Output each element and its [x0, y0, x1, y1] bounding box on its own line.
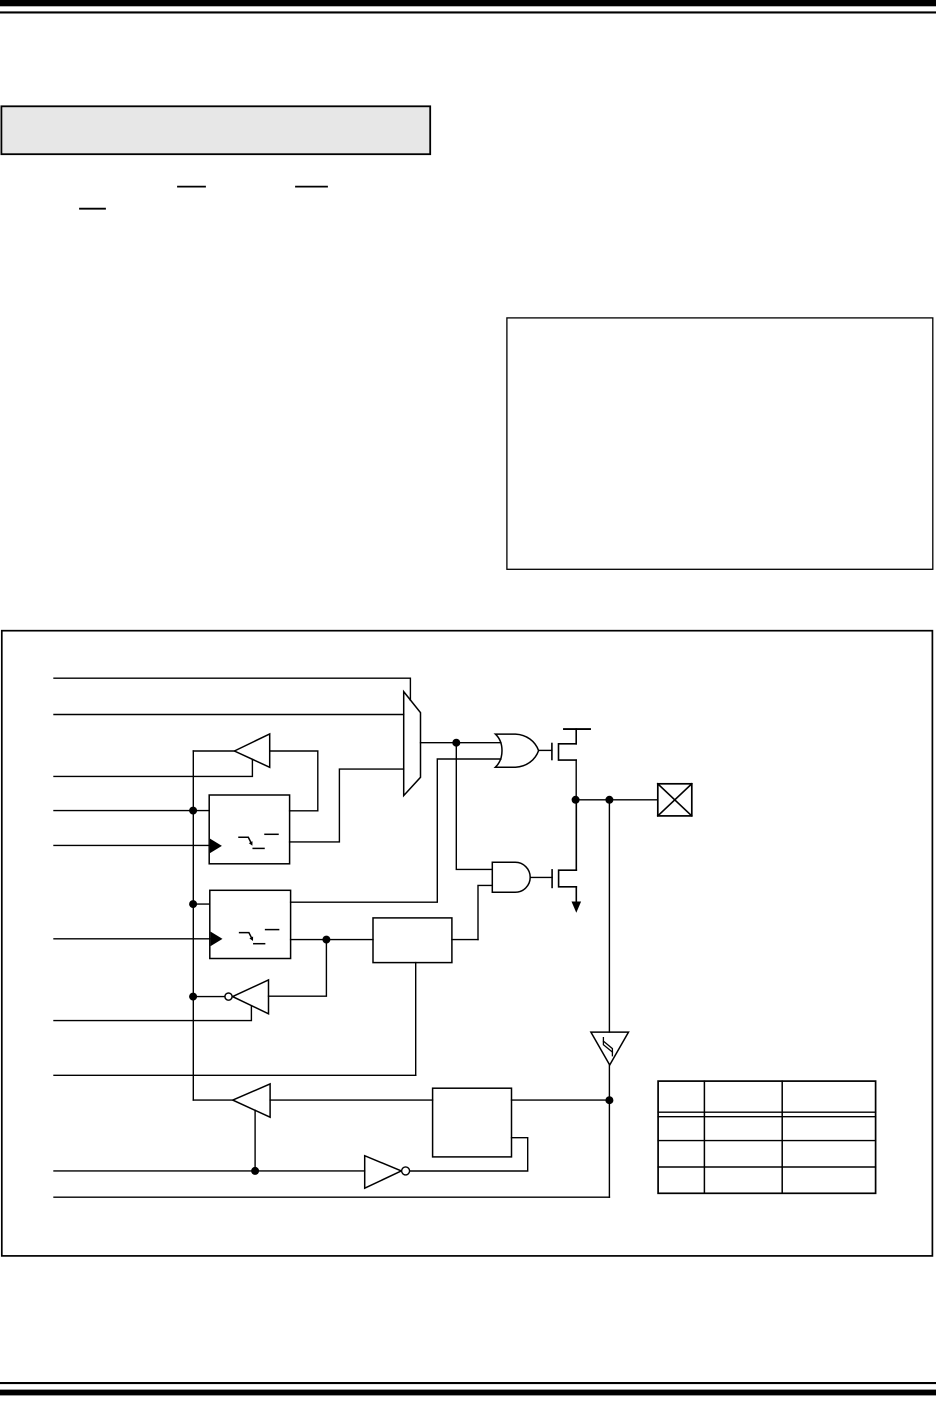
- symbol: D1 falling-edge mark: [239, 834, 278, 848]
- header rule thick: [0, 0, 936, 6]
- section title box (grey): [1, 106, 430, 154]
- block B2: [433, 1088, 512, 1157]
- power rail VDD bar: [564, 728, 590, 730]
- wire: mux output down to AND gate input: [456, 743, 492, 870]
- wire: D1 Q output: [290, 810, 318, 812]
- wire: U3 input from block B2: [270, 1099, 433, 1101]
- wire: data bus input (top): [54, 678, 410, 700]
- pin-name overbar A: [178, 186, 205, 188]
- Schmitt trigger U5 (points down): [591, 1032, 629, 1065]
- inverter U2 (points left, bubble): [233, 980, 269, 1014]
- wire: D2 Q down to inverter U2 input: [269, 940, 327, 997]
- wire: WR PORT clock into latch D1: [54, 844, 209, 846]
- node: junction at Q1/Q2 drains: [572, 796, 580, 804]
- wire: buffer U1 input from latch D1 Q: [270, 751, 318, 811]
- header rule thin: [0, 11, 936, 13]
- ground VSS arrow: [572, 902, 582, 913]
- or-gate G1: [495, 734, 538, 767]
- wire: mux output: [421, 742, 501, 744]
- wire: AND gate output to Q2 gate: [530, 876, 552, 878]
- wire: left vertical bus: [192, 751, 194, 1100]
- wire: Q1 drain to pad node: [575, 760, 577, 800]
- table (bottom right): [658, 1081, 876, 1193]
- wire: RD TRIS enable to inverter U2: [54, 1006, 251, 1021]
- pin: D2 clock edge arrow: [211, 932, 223, 947]
- bubble of U4: [402, 1167, 410, 1175]
- wire: D1 Q2 output to mux: [290, 769, 404, 842]
- figure frame: [2, 631, 933, 1256]
- wire: WR TRIS clock into latch D2: [54, 938, 210, 940]
- wire: pad node horizontal: [576, 799, 658, 801]
- node: junction on Schmitt output line: [605, 1096, 613, 1104]
- wire: Schmitt output down: [608, 1065, 610, 1197]
- wire: U3 output to bus bottom: [193, 1099, 233, 1101]
- footer rule thin: [0, 1382, 936, 1384]
- wire: OR gate output to Q1 gate: [539, 749, 552, 751]
- node: junction at U2 output: [189, 993, 197, 1001]
- wire: B1 output up to AND gate: [452, 939, 478, 941]
- node: junction on vertical bus at D1 input: [189, 807, 197, 815]
- wire: B2 lower output to NOT gate U4: [410, 1138, 528, 1171]
- wire: B2 right output to input line: [512, 1099, 610, 1101]
- pin: D1 clock edge arrow: [210, 839, 222, 854]
- transistor Q1 (P-ch, top): [552, 729, 576, 760]
- mux M1 (trapezoid): [404, 692, 421, 796]
- and-gate G2: [492, 862, 530, 892]
- TRIS latch D2: [210, 890, 291, 958]
- note box: [507, 318, 933, 569]
- NOT gate U4 (points right, bubble): [365, 1156, 402, 1189]
- data latch D1: [209, 795, 289, 864]
- symbol: D2 falling-edge mark: [240, 930, 279, 944]
- wire: AND gate lower input: [478, 885, 492, 939]
- buffer U1 (tri-state, points left): [234, 734, 269, 767]
- block B1: [373, 918, 452, 963]
- wire: bottom input line: [54, 1196, 609, 1198]
- wire: bus line to box B2 bottom: [54, 1074, 416, 1076]
- wire: RD TRIS line to buffer U1: [54, 760, 252, 777]
- node: junction on D2 Q output: [322, 936, 330, 944]
- bubble of U2: [225, 993, 232, 1000]
- transistor Q2 (N-ch, bottom): [552, 800, 576, 902]
- wire: mux input 1: [54, 714, 404, 716]
- wire: D2 Q output to box B1: [291, 939, 373, 941]
- buffer U3 (points left): [233, 1084, 270, 1117]
- wire: data input to latch D1: [54, 810, 209, 812]
- symbol: hysteresis mark: [603, 1038, 612, 1056]
- wire: U2 output stub to bus: [193, 996, 225, 998]
- wire: buffer U3 enable riser: [254, 1110, 256, 1171]
- wire: pad node down to Schmitt trigger: [608, 800, 610, 1032]
- I/O pad P1: [658, 784, 692, 816]
- wire: OR gate lower input from latch D2: [291, 759, 501, 902]
- footer rule thick: [0, 1390, 936, 1396]
- node: mux output junction: [452, 739, 460, 747]
- wire: B1 bottom drop: [415, 963, 417, 1076]
- wire: RD PORT line to NOT gate U4: [54, 1170, 365, 1172]
- node: junction on RD PORT line: [251, 1167, 259, 1175]
- node: junction at D2 D input: [189, 900, 197, 908]
- pin-name overbar B: [296, 186, 327, 188]
- node: junction to input path: [605, 796, 613, 804]
- pin-name overbar C: [80, 208, 105, 210]
- wire: buffer U1 output to bus: [193, 750, 234, 752]
- wire: D2 D input stub from bus: [193, 903, 210, 905]
